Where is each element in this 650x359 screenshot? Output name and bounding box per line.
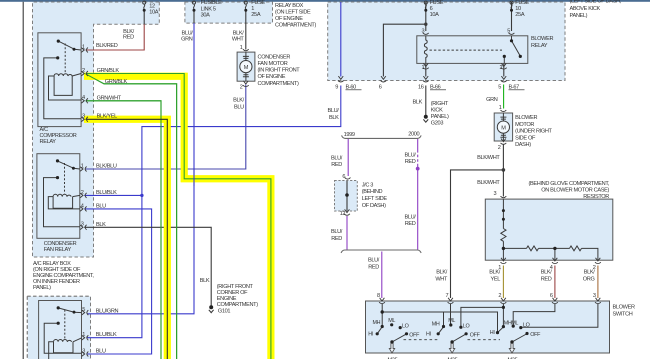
svg-text:3: 3 (593, 293, 596, 299)
connector at J/C 3 pin 12 (344, 209, 350, 215)
condenser fan relay K2 box (37, 154, 80, 239)
svg-text:(ON LEFT SIDE: (ON LEFT SIDE (275, 10, 311, 16)
svg-text:BLK/YEL: BLK/YEL (97, 113, 117, 119)
svg-text:2: 2 (498, 293, 501, 299)
connector at resistor pin 2 (595, 258, 601, 264)
svg-text:OF ENGINE: OF ENGINE (275, 16, 303, 22)
wire from fuse 6 to blower relay pin 3 and branch to pin 6 connector (383, 2, 425, 77)
wire BLU/GRN crossing patch over band (193, 168, 195, 186)
svg-text:SWITCH: SWITCH (613, 312, 633, 318)
bottom bracket below J/C 3 (341, 250, 421, 253)
connector at resistor pin 1 (501, 258, 507, 264)
svg-text:5: 5 (507, 29, 510, 35)
svg-text:CONDENSER: CONDENSER (258, 54, 291, 60)
boundary connector 16 B-66 (423, 76, 429, 82)
connector at condenser fan motor pin 1 (243, 49, 249, 51)
highlight band over plain wires GRN/BLK (84, 76, 271, 359)
svg-text:1999: 1999 (344, 132, 355, 138)
svg-text:2: 2 (81, 190, 84, 196)
wire BLK/BLU from motor pin 2 to condenser fan relay pin 1 (86, 85, 246, 170)
wire GRN/WHT repaint (86, 101, 162, 359)
svg-text:LINK 5: LINK 5 (201, 6, 216, 12)
wire blower relay pin 2 to B-67 (503, 63, 505, 76)
svg-text:ORG: ORG (583, 276, 595, 282)
svg-text:9: 9 (335, 85, 338, 91)
svg-text:SIDE OF: SIDE OF (515, 135, 536, 141)
svg-text:(LEFT SIDE OF DASH,: (LEFT SIDE OF DASH, (570, 0, 622, 5)
svg-text:GRN: GRN (181, 36, 193, 42)
svg-text:BLK/WHT: BLK/WHT (477, 155, 500, 161)
wire BLK/RED from fuse 12 to A/C compressor relay pin 1 (86, 24, 145, 50)
junction block dashed region (top right) (328, 2, 565, 81)
wire 1999 connector to J/C 3 pin 6 (347, 139, 349, 176)
svg-text:LO: LO (463, 323, 470, 329)
svg-text:1: 1 (251, 6, 254, 12)
svg-text:OF ENGINE: OF ENGINE (258, 74, 286, 80)
boundary connector 5 B-67 (501, 76, 507, 82)
wire J/C 3 pin 12 to bottom bracket (346, 216, 348, 250)
svg-text:BLK/: BLK/ (541, 269, 553, 275)
svg-text:6: 6 (342, 174, 345, 180)
svg-text:COMPARTMENT): COMPARTMENT) (258, 81, 299, 87)
svg-text:BLOWER: BLOWER (531, 36, 553, 42)
svg-text:BLK/RED: BLK/RED (96, 43, 118, 49)
wire BLU from condenser fan relay pin 4 to bottom relay pin 3 (84, 209, 151, 354)
connector at blower relay pin 5 (509, 33, 515, 35)
blower motor M2 box (494, 113, 512, 141)
connector at blower motor pin 1 (501, 110, 507, 112)
svg-text:COMPARTMENT): COMPARTMENT) (217, 302, 258, 308)
ground G203 (424, 115, 428, 119)
connector at blower switch pin 3 (595, 298, 601, 304)
wire BLK/YEL from pin 3 (86, 119, 168, 359)
svg-text:1: 1 (422, 65, 425, 71)
wire BLU/BLK above B-60 inside junction block (340, 2, 342, 77)
fuse 6 (424, 1, 427, 9)
A/C relay box dashed region (bottom left) (27, 296, 90, 359)
wire GRN/BLK highlighted from pin 2 (86, 74, 271, 359)
wire BLK/WHT from fuse 1 to condenser fan motor (245, 11, 247, 50)
svg-text:OFF: OFF (530, 332, 541, 338)
connector 1999/2000 top bracket (342, 135, 422, 138)
svg-text:BLK: BLK (412, 99, 422, 105)
svg-text:1: 1 (499, 105, 502, 111)
svg-text:PANEL): PANEL) (570, 13, 588, 19)
switch output arrows to bottom edge (389, 344, 514, 354)
svg-text:2000: 2000 (408, 131, 419, 137)
wire BLK/WHT from blower motor pin 2, junction, branch to switch pin 7 (451, 145, 504, 299)
svg-text:OFF: OFF (409, 332, 420, 338)
svg-text:YEL: YEL (490, 276, 500, 282)
svg-text:RED: RED (541, 276, 552, 282)
svg-text:M: M (501, 126, 506, 132)
svg-text:CONDENSER: CONDENSER (44, 241, 77, 247)
svg-text:25A: 25A (251, 12, 261, 18)
svg-text:M: M (244, 65, 249, 71)
svg-text:BLOWER: BLOWER (515, 115, 537, 121)
svg-text:RELAY: RELAY (40, 139, 57, 145)
svg-text:2: 2 (82, 68, 85, 74)
svg-text:BLU/: BLU/ (404, 152, 416, 158)
svg-text:BLU/BLK: BLU/BLK (96, 190, 117, 196)
svg-text:MOTOR: MOTOR (515, 122, 534, 128)
svg-text:2: 2 (500, 65, 503, 71)
highlight band BLK/YEL wire (84, 119, 167, 359)
svg-text:5: 5 (82, 307, 85, 313)
connector at blower switch pin 8 (379, 298, 385, 304)
boundary connector 9 B-60 (338, 76, 344, 82)
svg-text:BLU: BLU (96, 349, 106, 355)
svg-text:12: 12 (340, 211, 346, 217)
connector at J/C 3 pin 6 (345, 178, 351, 180)
svg-text:RED: RED (331, 162, 342, 168)
svg-text:RED: RED (405, 159, 416, 165)
connector at blower motor pin 2 (501, 139, 507, 145)
svg-text:BLU/: BLU/ (368, 258, 380, 264)
svg-text:10A: 10A (149, 10, 159, 16)
svg-text:BLU/: BLU/ (331, 229, 343, 235)
svg-text:ML: ML (448, 318, 455, 324)
wire BLK from condenser fan relay pin 3 to ground G101 (84, 227, 211, 305)
svg-text:5: 5 (498, 85, 501, 91)
resistor box (485, 199, 613, 260)
svg-text:BLK/: BLK/ (233, 98, 245, 104)
svg-text:PANEL): PANEL) (33, 285, 51, 291)
svg-text:BLU/GRN: BLU/GRN (96, 308, 119, 314)
condenser fan relay internals (44, 161, 80, 227)
resistor internals (501, 199, 598, 260)
svg-text:(BEHIND GLOVE COMPARTMENT,: (BEHIND GLOVE COMPARTMENT, (528, 181, 609, 187)
svg-text:FAN RELAY: FAN RELAY (44, 247, 72, 253)
svg-text:25A: 25A (515, 12, 525, 18)
svg-text:BLK/BLU: BLK/BLU (96, 164, 117, 170)
svg-text:BLU/: BLU/ (331, 156, 343, 162)
svg-text:BLU: BLU (96, 204, 106, 210)
svg-text:10: 10 (515, 6, 521, 12)
svg-text:3: 3 (82, 114, 85, 120)
bottom A/C relay K3 box (cut off) (39, 301, 82, 359)
connector at blower relay pin 1 (423, 63, 429, 69)
wire BLU/RED 2000 branch with dashed section and junction dot (417, 139, 419, 150)
svg-text:FAN MOTOR: FAN MOTOR (258, 61, 288, 67)
svg-text:BLK: BLK (96, 222, 106, 228)
svg-text:DASH): DASH) (515, 142, 531, 148)
svg-text:MH: MH (432, 321, 440, 327)
connector at blower switch pin 7 (448, 298, 454, 304)
svg-text:J/C 3: J/C 3 (362, 182, 374, 188)
svg-text:3: 3 (82, 348, 85, 354)
wire BLU/BLK condenser fan relay pin 2 stub (84, 194, 142, 196)
svg-text:BLU/BLK: BLU/BLK (96, 332, 117, 338)
svg-text:FUSIBLE: FUSIBLE (201, 0, 222, 6)
svg-text:3: 3 (422, 29, 425, 35)
svg-text:3: 3 (81, 222, 84, 228)
A/C relay box dashed region (left) (33, 2, 160, 257)
svg-text:G203: G203 (431, 121, 444, 127)
svg-text:WHT: WHT (232, 36, 245, 42)
svg-text:WHT: WHT (435, 276, 448, 282)
fuse 12 (143, 1, 146, 9)
svg-text:LO: LO (523, 323, 530, 329)
svg-text:BLU/: BLU/ (404, 214, 416, 220)
J/C 3 dashed box (335, 181, 358, 212)
svg-text:PANEL): PANEL) (431, 114, 449, 120)
svg-text:LEFT SIDE: LEFT SIDE (362, 196, 388, 202)
svg-text:GRN/BLK: GRN/BLK (105, 79, 128, 85)
svg-text:KICK: KICK (431, 108, 443, 114)
svg-text:BLU/: BLU/ (327, 108, 339, 114)
svg-text:HI: HI (490, 330, 495, 336)
svg-text:BLK/: BLK/ (436, 269, 448, 275)
connector at resistor pin 4 (552, 258, 558, 264)
condenser fan motor M1 box (237, 52, 255, 81)
svg-text:BLK/: BLK/ (584, 269, 596, 275)
svg-text:GRN: GRN (486, 97, 498, 103)
svg-text:30A: 30A (201, 12, 211, 18)
svg-text:6: 6 (550, 293, 553, 299)
svg-text:GRN/WHT: GRN/WHT (97, 95, 122, 101)
svg-text:1: 1 (240, 45, 243, 51)
svg-text:ON BLOWER MOTOR CASE): ON BLOWER MOTOR CASE) (541, 188, 609, 194)
wire blower relay pin 1 to B-66 (425, 63, 427, 76)
svg-text:LO: LO (402, 323, 409, 329)
connector at condenser fan motor pin 2 (243, 81, 249, 87)
boundary connector 6 (381, 76, 387, 82)
svg-text:BLK: BLK (329, 115, 339, 121)
top page bar (0, 0, 650, 2)
svg-text:2: 2 (498, 145, 501, 151)
svg-text:1: 1 (82, 332, 85, 338)
svg-text:12: 12 (149, 4, 155, 10)
svg-text:(RIGHT: (RIGHT (431, 101, 449, 107)
svg-text:OFF: OFF (470, 332, 481, 338)
blower switch interior wiring (377, 304, 598, 343)
connector at blower switch pin 2 (501, 298, 507, 304)
ground G101 (209, 305, 213, 309)
wire BLU/RED bottom bracket to blower switch pin 8 (381, 252, 383, 299)
svg-text:2: 2 (240, 85, 243, 91)
relay box dashed region (engine compartment) (185, 2, 273, 23)
svg-text:16: 16 (418, 85, 424, 91)
svg-text:MH: MH (373, 320, 381, 326)
horizontal pin arrows (relay pins) (80, 48, 88, 357)
svg-text:1: 1 (81, 163, 84, 169)
svg-text:ML: ML (388, 318, 395, 324)
svg-text:OF DASH): OF DASH) (362, 203, 386, 209)
connector at blower switch pin 6 (552, 298, 558, 304)
svg-text:GRN/BLK: GRN/BLK (97, 68, 120, 74)
svg-text:8: 8 (377, 293, 380, 299)
svg-text:BLK/WHT: BLK/WHT (477, 180, 500, 186)
svg-text:3: 3 (494, 191, 497, 197)
wire BLK/RED resistor pin 4 to switch pin 6 (554, 266, 556, 299)
fuse 1 (244, 1, 247, 9)
wire BLU/BLK from B-60 down-left to bottom relay pin 1 (87, 86, 341, 338)
wire BLK from B-66 to ground G203 (425, 86, 427, 116)
wire BLK/YEL repaint (86, 119, 168, 359)
page border line (22, 2, 24, 359)
connector at blower relay pin 3 (423, 33, 429, 35)
svg-text:BLOWER: BLOWER (613, 305, 635, 311)
svg-text:6: 6 (379, 85, 382, 91)
svg-text:RED: RED (368, 265, 379, 271)
A/C compressor relay internals (44, 41, 81, 119)
wire BLU/GRN from fusible link 5 to relay pin 5 (193, 11, 195, 24)
svg-text:BLK/: BLK/ (489, 269, 501, 275)
connector at blower relay pin 2 (501, 63, 507, 69)
blower relay box (417, 36, 528, 64)
highlight band over plain wires BLK/YEL (84, 119, 167, 359)
switch cluster 3 contacts (496, 325, 529, 344)
svg-text:(BEHIND: (BEHIND (362, 189, 383, 195)
svg-text:G101: G101 (218, 308, 231, 314)
svg-text:6: 6 (430, 6, 433, 12)
svg-text:BLK: BLK (200, 278, 210, 284)
svg-text:COMPARTMENT): COMPARTMENT) (275, 23, 316, 29)
highlight band GRN/BLK wire (84, 76, 271, 359)
svg-text:RED: RED (331, 236, 342, 242)
svg-text:4: 4 (81, 203, 84, 209)
svg-text:RED: RED (405, 221, 416, 227)
wire GRN/WHT from pin 4 (86, 101, 162, 359)
svg-text:RED: RED (123, 35, 134, 41)
wire GRN/BLK highlighted repaint (86, 74, 271, 359)
svg-text:4: 4 (82, 95, 85, 101)
wire GRN from B-67 to blower motor pin 1 (503, 85, 505, 109)
svg-text:ABOVE KICK: ABOVE KICK (570, 6, 601, 12)
svg-text:RELAY: RELAY (531, 43, 548, 49)
switch cluster 1 contacts (376, 323, 409, 344)
wire BLK/ORG resistor pin 2 to switch pin 3 (597, 266, 599, 299)
connector at resistor pin 3 (501, 196, 507, 198)
svg-text:BLU: BLU (234, 104, 244, 110)
bottom relay internals (44, 308, 81, 359)
switch cluster 1 labels (368, 318, 420, 338)
switch cluster 3 labels (490, 320, 541, 338)
wire GRN/BLK second branch repaint (86, 74, 177, 359)
svg-text:1: 1 (82, 44, 85, 50)
svg-text:HI: HI (426, 331, 431, 337)
svg-text:10A: 10A (430, 12, 440, 18)
svg-text:ML: ML (511, 320, 518, 326)
A/C compressor relay U1 box (38, 33, 81, 127)
svg-text:(UNDER RIGHT: (UNDER RIGHT (515, 129, 552, 135)
blower switch box (366, 301, 610, 353)
wire from fuse 10 to blower relay pin 5 (511, 2, 513, 31)
wire BLK/YEL resistor pin 1 to switch pin 2 (502, 266, 504, 299)
switch cluster 2 contacts (437, 323, 468, 343)
wire GRN/BLK second branch (86, 74, 177, 359)
svg-text:(IN RIGHT FRONT: (IN RIGHT FRONT (258, 68, 301, 74)
svg-text:7: 7 (446, 293, 449, 299)
fusible link 5 (193, 1, 196, 9)
fuse 10 (510, 1, 513, 9)
svg-text:RELAY BOX: RELAY BOX (275, 3, 304, 9)
svg-text:RESISTOR: RESISTOR (583, 194, 609, 200)
svg-text:HI: HI (368, 331, 373, 337)
switch cluster 2 labels (426, 318, 481, 338)
